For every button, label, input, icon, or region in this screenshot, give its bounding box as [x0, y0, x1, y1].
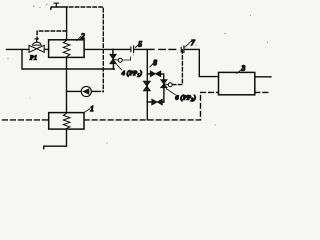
relay 4 bowtie [110, 54, 117, 63]
relay 4 tail [122, 57, 130, 60]
svg-text:1: 1 [90, 105, 94, 113]
plug symbol on vent line [54, 3, 58, 7]
pump discharge dashed piece [98, 90, 103, 92]
valve 8 on left vertical bowtie [143, 81, 150, 91]
relay 6 bowtie [161, 80, 168, 88]
component 3 body [219, 72, 255, 94]
pump discharge wire [92, 90, 98, 92]
pilot dashed output of component 3 [255, 91, 271, 93]
wire: center vertical between components 2 and 1 [66, 57, 68, 112]
relay 4 bulb [118, 58, 122, 62]
wire: center vertical from vent to component 2 [66, 7, 68, 40]
svg-text:2: 2 [81, 32, 85, 41]
bottom bypass branch wire [147, 101, 152, 103]
relay 6 link to bulb [164, 83, 168, 86]
wire bottom branch corner [162, 101, 164, 103]
wire: main line after coupling 7 to corner down to component 3 [185, 49, 219, 76]
label 3 leader [237, 70, 242, 74]
wire: broken hose section between couplings [151, 48, 155, 50]
relay 4 stub from main line [112, 49, 114, 54]
svg-text:7: 7 [191, 39, 195, 47]
wire: top vent line [51, 7, 68, 9]
component 1 spring [63, 113, 70, 129]
wire: stub from relay 4 down to mid line [112, 64, 114, 69]
label 5 leader [135, 44, 138, 48]
valve top bypass bowtie [150, 71, 161, 77]
component 2 body [49, 40, 85, 58]
label 6 leader [166, 89, 175, 95]
wire: main supply line left segment [7, 48, 30, 50]
node: branch at x=22 down and line to tank side [22, 49, 114, 69]
scan noise specks [7, 4, 268, 144]
relay 4 link to bulb [114, 58, 119, 61]
pilot dashed line from coupling 7 to relay 6 bulb [173, 50, 182, 85]
wire: component 3 output [255, 76, 271, 78]
wire: main line between valve P1 and component 2 [44, 48, 48, 50]
svg-text:Р1: Р1 [29, 56, 37, 62]
label 4 leader [117, 65, 122, 70]
svg-text:4 (РР1): 4 (РР1) [122, 70, 142, 77]
svg-text:5: 5 [138, 40, 142, 48]
component 1 body [49, 113, 84, 130]
coupling 7 ticks [181, 46, 184, 53]
component 2 spring [63, 40, 70, 57]
svg-text:6 (РР2): 6 (РР2) [175, 95, 196, 102]
valve P1 actuator dome [33, 42, 42, 45]
label 7 leader [185, 42, 191, 48]
wire: main line from component 2 to coupling 5 [84, 48, 130, 50]
valve block left vertical wire [146, 49, 148, 119]
pilot dashed drain line from component 1 to component 3 [84, 92, 218, 120]
svg-text:8: 8 [153, 59, 157, 67]
top bypass branch wire [147, 73, 150, 75]
coupling 5 ticks [131, 46, 134, 53]
pilot dashed line from vent to pump discharge [69, 7, 103, 92]
pump U1 rotor triangle [82, 88, 89, 95]
valve bottom bypass bowtie [152, 99, 163, 105]
pilot dashed line to valve P1 actuator [37, 31, 66, 39]
pump U1 circle [81, 86, 91, 96]
wire: drain below component 1 [44, 129, 67, 149]
pump suction wire [67, 90, 82, 92]
wire right vertical below relay 6 [163, 88, 165, 102]
wire top branch to right vertical [161, 74, 164, 80]
pilot dashed drain line far left [3, 119, 49, 121]
relay 6 bulb [168, 83, 172, 87]
relay 6 tail [172, 84, 175, 86]
valve P1 bowtie [29, 45, 44, 52]
label 2 leader [77, 36, 81, 40]
valve P1 stem [35, 39, 38, 42]
wire: main line after coupling 5 [135, 48, 151, 50]
svg-text:3: 3 [241, 64, 246, 72]
label 8 leader [150, 64, 153, 67]
label 1 leader [85, 109, 90, 113]
